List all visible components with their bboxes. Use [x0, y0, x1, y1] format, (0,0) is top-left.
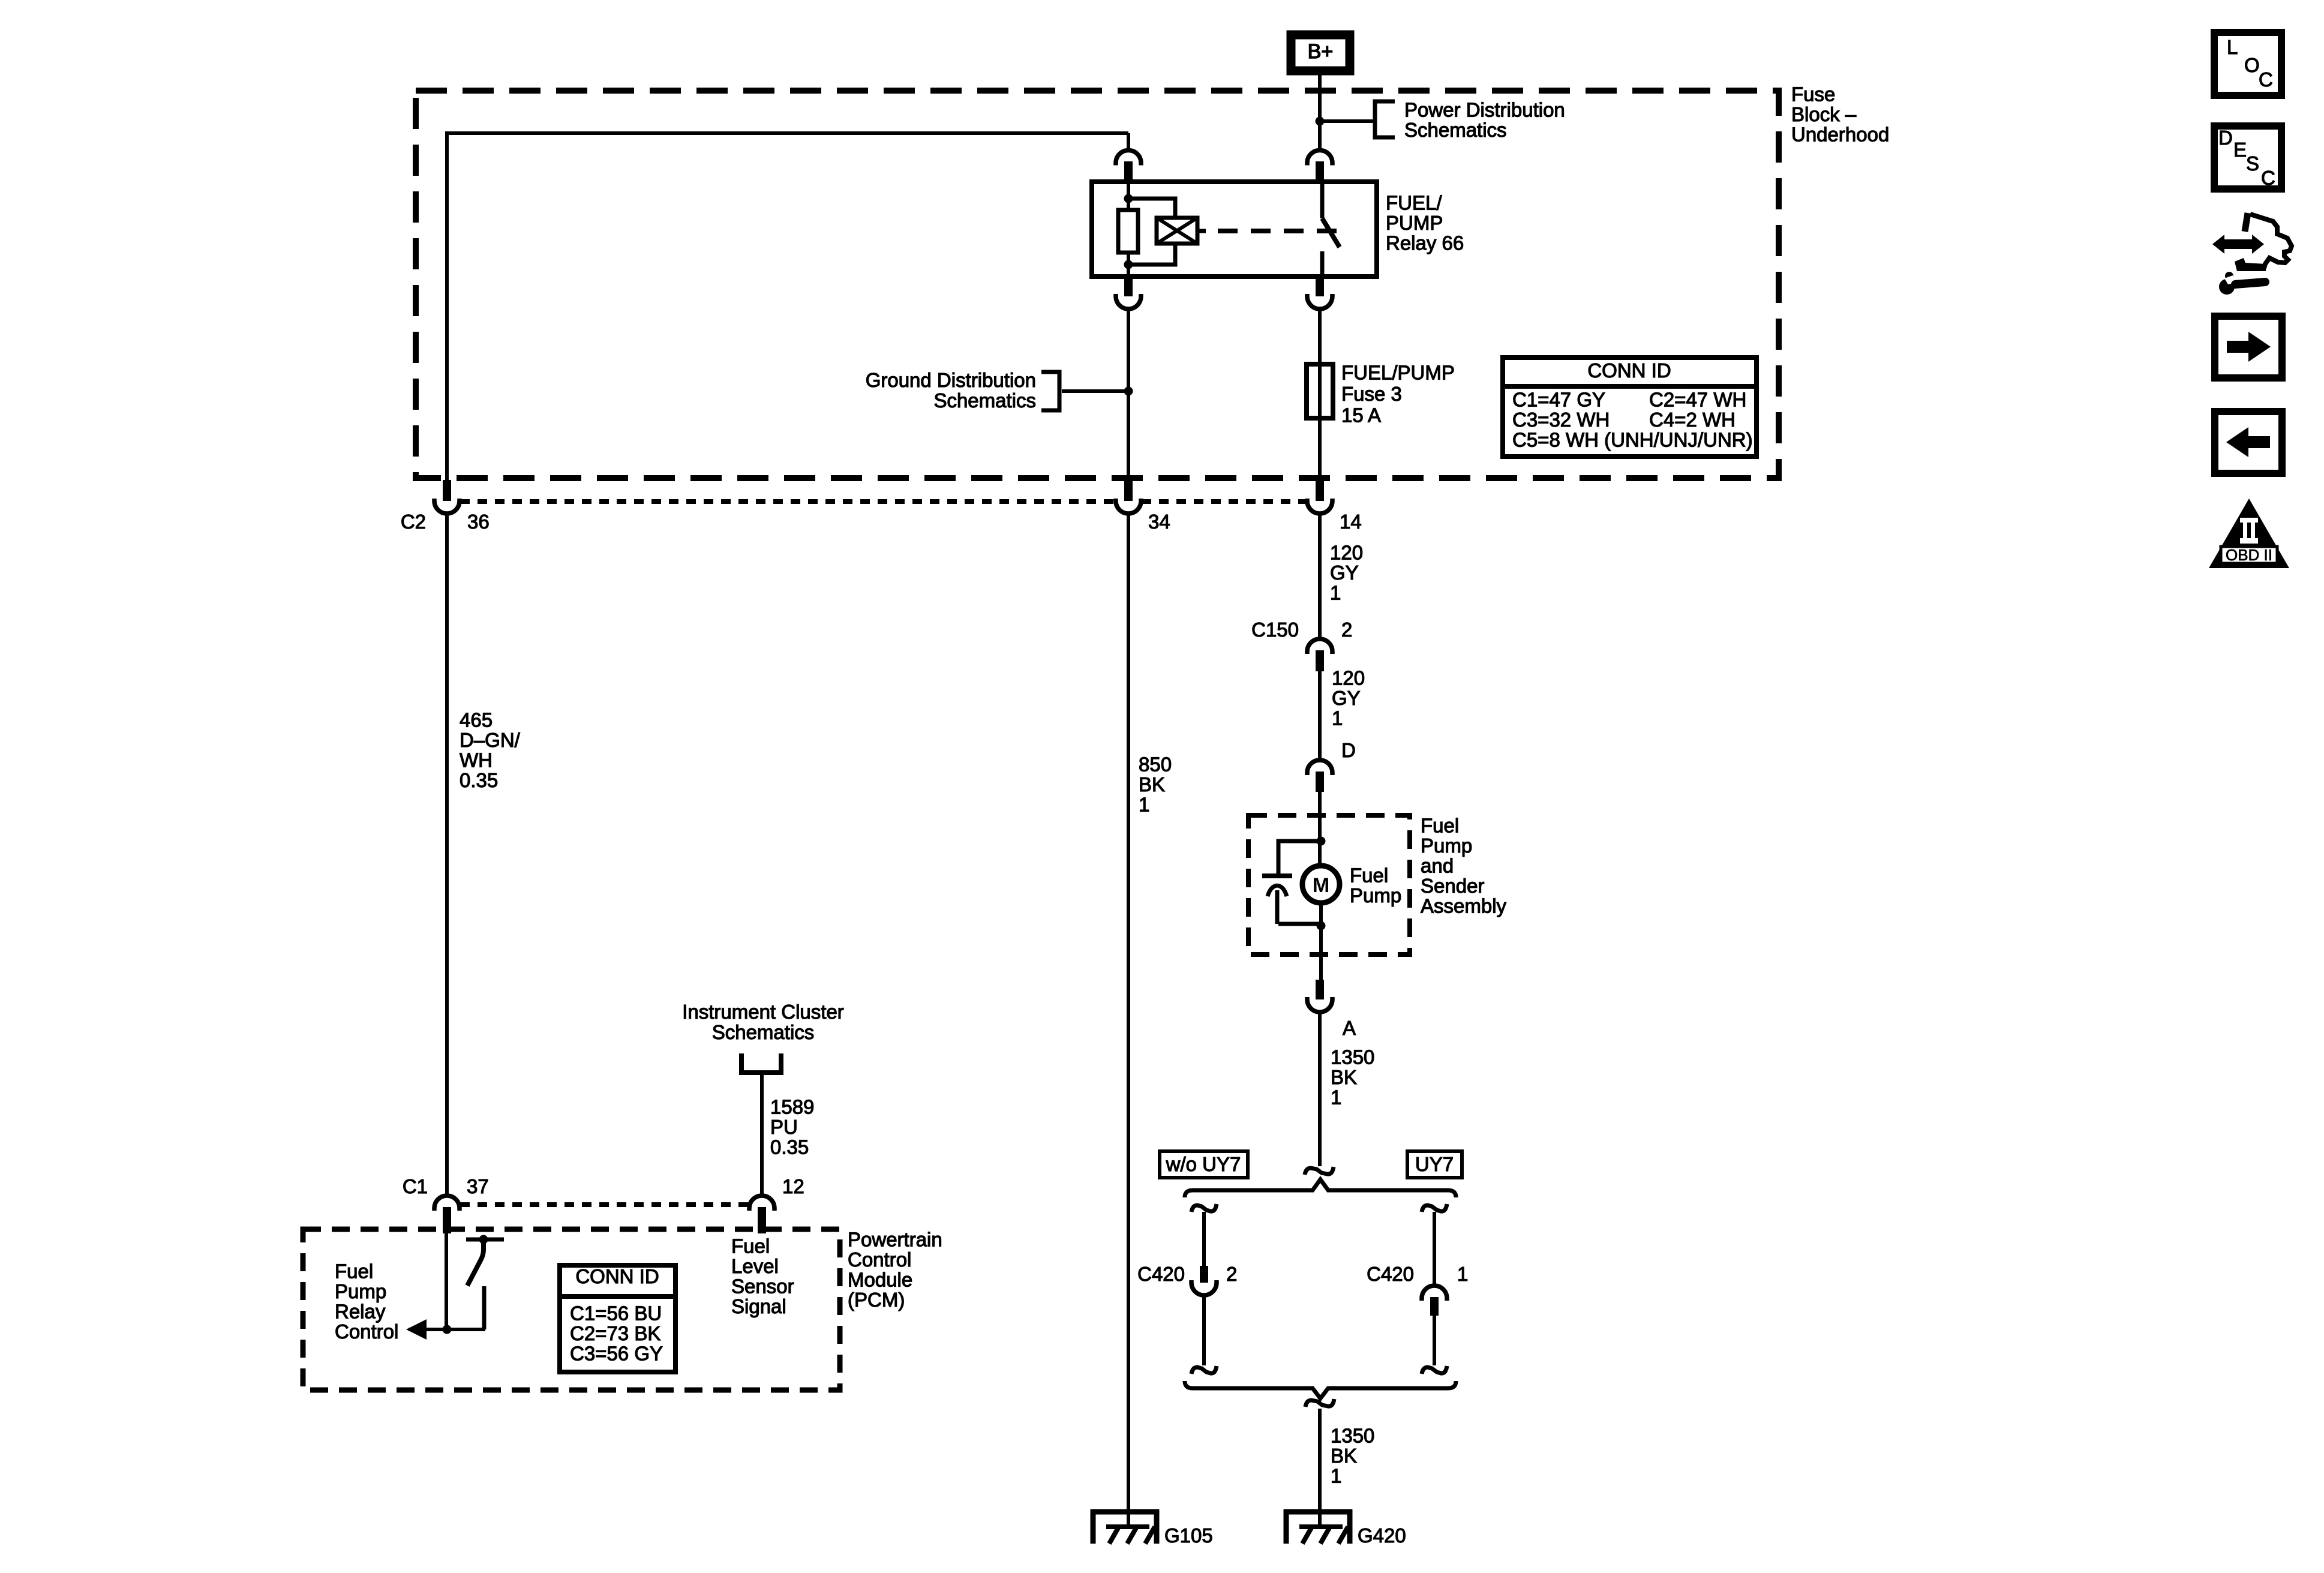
svg-text:L: L	[2227, 36, 2238, 58]
svg-text:1589: 1589	[770, 1096, 814, 1118]
svg-text:BK: BK	[1331, 1066, 1357, 1088]
svg-text:and: and	[1421, 855, 1454, 877]
svg-text:CONN ID: CONN ID	[1587, 359, 1671, 382]
svg-text:Pump: Pump	[1350, 884, 1401, 906]
svg-text:1350: 1350	[1331, 1046, 1374, 1068]
svg-text:C1=56 BU: C1=56 BU	[570, 1302, 662, 1325]
svg-text:C4=2 WH: C4=2 WH	[1649, 409, 1736, 431]
svg-text:BK: BK	[1331, 1445, 1357, 1467]
svg-text:0.35: 0.35	[770, 1136, 809, 1158]
svg-text:Instrument Cluster: Instrument Cluster	[682, 1001, 844, 1023]
svg-text:C: C	[2259, 68, 2273, 91]
svg-text:C1: C1	[403, 1175, 428, 1197]
svg-text:Signal: Signal	[731, 1295, 786, 1317]
svg-text:PU: PU	[770, 1116, 798, 1138]
svg-text:M: M	[1313, 874, 1329, 897]
svg-text:2: 2	[1226, 1263, 1237, 1285]
svg-text:Fuse 3: Fuse 3	[1341, 383, 1402, 405]
svg-text:0.35: 0.35	[460, 769, 498, 791]
svg-text:B+: B+	[1308, 40, 1334, 63]
svg-text:1350: 1350	[1331, 1425, 1374, 1447]
svg-text:1: 1	[1139, 794, 1149, 816]
svg-text:1: 1	[1331, 1086, 1341, 1109]
svg-text:Schematics: Schematics	[712, 1021, 815, 1043]
svg-text:Assembly: Assembly	[1421, 895, 1507, 917]
svg-text:O: O	[2244, 54, 2260, 76]
svg-text:(PCM): (PCM)	[848, 1289, 905, 1311]
svg-text:Powertrain: Powertrain	[848, 1229, 942, 1251]
svg-text:Sender: Sender	[1421, 875, 1484, 897]
svg-text:Schematics: Schematics	[933, 389, 1036, 412]
svg-text:1: 1	[1331, 1465, 1341, 1487]
svg-text:Fuse: Fuse	[1791, 83, 1835, 106]
svg-text:C420: C420	[1367, 1263, 1414, 1285]
svg-text:G105: G105	[1164, 1524, 1213, 1547]
svg-text:Relay 66: Relay 66	[1386, 232, 1464, 254]
svg-text:850: 850	[1139, 754, 1172, 776]
svg-text:D: D	[1341, 739, 1356, 761]
svg-text:15 A: 15 A	[1341, 404, 1381, 427]
svg-text:E: E	[2233, 139, 2247, 161]
svg-text:C2: C2	[401, 511, 426, 533]
svg-text:S: S	[2246, 152, 2259, 175]
svg-text:C1=47 GY: C1=47 GY	[1512, 389, 1605, 411]
svg-text:1: 1	[1332, 707, 1343, 730]
svg-text:Level: Level	[731, 1255, 779, 1277]
svg-text:120: 120	[1330, 542, 1363, 564]
svg-text:12: 12	[782, 1175, 804, 1197]
svg-text:D–GN/: D–GN/	[460, 729, 521, 751]
svg-text:14: 14	[1340, 511, 1362, 533]
svg-text:FUEL/: FUEL/	[1386, 192, 1442, 214]
svg-text:C5=8 WH (UNH/UNJ/UNR): C5=8 WH (UNH/UNJ/UNR)	[1512, 429, 1753, 451]
svg-text:C3=32 WH: C3=32 WH	[1512, 409, 1610, 431]
svg-text:C420: C420	[1137, 1263, 1185, 1285]
svg-text:Underhood: Underhood	[1791, 124, 1889, 146]
svg-text:C150: C150	[1251, 619, 1299, 641]
svg-text:Fuel: Fuel	[1350, 864, 1388, 887]
svg-text:C3=56 GY: C3=56 GY	[570, 1343, 663, 1365]
svg-text:Fuel: Fuel	[731, 1235, 770, 1257]
svg-text:Control: Control	[848, 1248, 911, 1271]
svg-text:Fuel: Fuel	[335, 1260, 373, 1283]
svg-text:Pump: Pump	[1421, 834, 1472, 857]
svg-text:UY7: UY7	[1415, 1153, 1454, 1175]
svg-text:Sensor: Sensor	[731, 1275, 794, 1298]
svg-text:465: 465	[460, 709, 493, 731]
svg-text:G420: G420	[1358, 1524, 1406, 1547]
svg-text:w/o UY7: w/o UY7	[1166, 1153, 1241, 1175]
svg-text:D: D	[2218, 127, 2233, 149]
svg-text:Ground Distribution: Ground Distribution	[866, 369, 1036, 391]
svg-text:Module: Module	[848, 1269, 912, 1291]
svg-text:C2=73 BK: C2=73 BK	[570, 1322, 660, 1344]
svg-text:PUMP: PUMP	[1386, 212, 1443, 234]
svg-text:1: 1	[1330, 582, 1341, 604]
svg-text:Block –: Block –	[1791, 103, 1857, 125]
svg-text:Control: Control	[335, 1320, 398, 1343]
svg-text:A: A	[1343, 1017, 1356, 1039]
svg-text:WH: WH	[460, 749, 493, 772]
svg-text:34: 34	[1148, 511, 1170, 533]
svg-text:1: 1	[1457, 1263, 1468, 1285]
svg-text:Schematics: Schematics	[1404, 119, 1507, 141]
svg-text:C2=47 WH: C2=47 WH	[1649, 389, 1746, 411]
svg-text:120: 120	[1332, 667, 1365, 689]
svg-text:2: 2	[1341, 619, 1352, 641]
svg-text:Power Distribution: Power Distribution	[1404, 99, 1565, 121]
svg-text:OBD II: OBD II	[2226, 546, 2272, 564]
svg-text:C: C	[2261, 167, 2275, 189]
svg-text:Fuel: Fuel	[1421, 815, 1459, 837]
svg-text:BK: BK	[1139, 773, 1165, 795]
svg-text:36: 36	[467, 511, 490, 533]
svg-text:Pump: Pump	[335, 1280, 386, 1302]
svg-text:Relay: Relay	[335, 1301, 386, 1323]
svg-text:37: 37	[467, 1175, 489, 1197]
svg-text:CONN ID: CONN ID	[575, 1265, 659, 1287]
svg-text:GY: GY	[1330, 562, 1359, 584]
svg-text:GY: GY	[1332, 687, 1361, 709]
svg-text:FUEL/PUMP: FUEL/PUMP	[1341, 362, 1455, 384]
